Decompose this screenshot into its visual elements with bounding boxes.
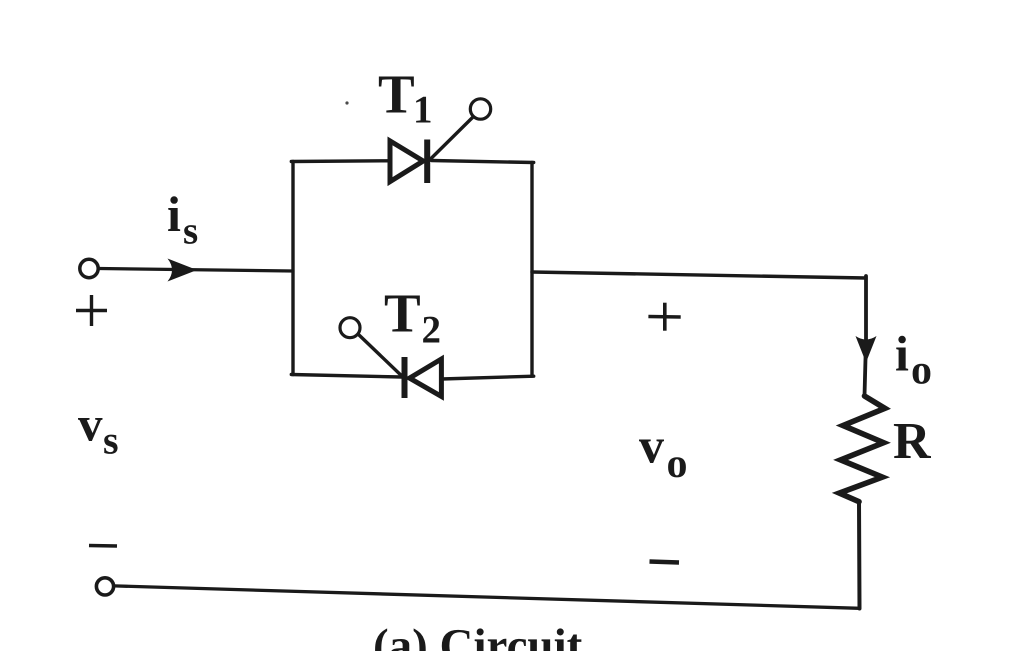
plus sign (source) — [76, 295, 107, 326]
arrowhead i_o current direction — [856, 336, 877, 363]
thyristor T2 gate terminal circle — [340, 318, 360, 338]
svg-text:T: T — [384, 283, 421, 344]
svg-text:v: v — [639, 417, 664, 473]
resistor R zigzag — [839, 396, 885, 502]
thyristor T1 gate terminal circle — [470, 99, 490, 119]
svg-text:R: R — [893, 413, 932, 470]
svg-text:i: i — [167, 186, 181, 242]
wire T2 triangle to bottom-right corner — [441, 376, 533, 379]
label v_s — [78, 397, 119, 463]
wire: bottom rail — [114, 586, 859, 608]
svg-text:(a) Circuit: (a) Circuit — [373, 620, 583, 651]
svg-text:2: 2 — [422, 308, 442, 351]
minus sign (output) — [650, 562, 680, 563]
svg-text:i: i — [895, 326, 909, 382]
thyristor T1 gate lead — [429, 118, 473, 161]
label i_s — [167, 186, 198, 253]
svg-text:o: o — [911, 347, 932, 393]
label i_o — [895, 326, 932, 394]
thyristor T2 anode triangle — [410, 359, 442, 396]
label T2 — [384, 283, 441, 352]
svg-text:s: s — [183, 210, 198, 253]
bridge box top edge (wire to T1) — [291, 159, 389, 163]
thyristor T2 cathode bar — [402, 357, 408, 398]
bridge box left edge — [291, 162, 294, 375]
svg-text:s: s — [103, 418, 119, 463]
minus sign (source) — [89, 544, 117, 548]
bridge box right edge — [530, 163, 533, 377]
svg-text:o: o — [667, 441, 688, 487]
thyristor T1 cathode bar — [424, 140, 430, 184]
wire: top-left terminal to bridge box — [100, 269, 294, 272]
wire T1 to top-right corner — [432, 161, 534, 163]
label T1 — [378, 64, 433, 132]
input terminal bottom-left — [96, 578, 113, 595]
speck near T1 — [345, 101, 348, 104]
thyristor T2 gate lead — [359, 335, 404, 378]
wire: box right edge to load corner — [532, 272, 866, 278]
wire: right vertical down to resistor — [865, 276, 867, 396]
svg-text:1: 1 — [413, 88, 433, 131]
plus sign (output) — [648, 303, 680, 331]
svg-text:T: T — [378, 64, 415, 125]
arrowhead i_s current direction — [168, 259, 198, 282]
svg-text:v: v — [78, 397, 103, 452]
thyristor T1 anode triangle — [390, 141, 423, 182]
label v_o — [639, 417, 688, 487]
wire: resistor to bottom rail — [857, 502, 862, 609]
input terminal top-left — [80, 259, 98, 277]
bridge box bottom edge (wire to T2 bar) — [291, 375, 401, 378]
